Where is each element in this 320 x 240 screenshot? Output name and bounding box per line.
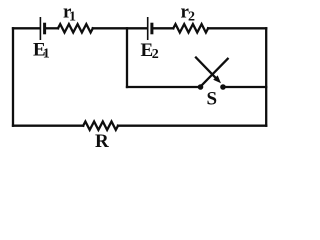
- switch S left contact dot: [198, 84, 204, 90]
- svg-text:E1: E1: [33, 40, 50, 62]
- switch S arrow line: [196, 58, 216, 79]
- svg-text:S: S: [207, 88, 218, 109]
- switch S right contact dot: [220, 84, 226, 90]
- resistor r1: [58, 24, 93, 32]
- node A middle branch vertical wire: [126, 28, 128, 87]
- wire top left segment: [13, 27, 39, 29]
- wire between r1 and node A: [93, 27, 147, 29]
- svg-text:r1: r1: [63, 2, 76, 25]
- wire switch row left: [127, 86, 198, 88]
- wire bottom left segment: [13, 125, 83, 127]
- switch S blade: [201, 59, 228, 87]
- svg-text:R: R: [95, 131, 109, 152]
- wire between E2 and r2: [154, 27, 174, 29]
- wire bottom right segment: [118, 125, 266, 127]
- battery E1: [40, 18, 44, 39]
- resistor r2: [173, 24, 208, 32]
- wire switch row right: [225, 86, 266, 88]
- wire top right segment: [208, 27, 266, 29]
- wire left vertical: [12, 28, 14, 125]
- battery E2: [148, 18, 152, 39]
- svg-text:r2: r2: [181, 2, 195, 25]
- wire right vertical: [265, 28, 267, 125]
- wire between E1 and r1: [46, 27, 58, 29]
- resistor R: [83, 122, 118, 130]
- switch S arrowhead: [213, 75, 221, 83]
- svg-text:E2: E2: [141, 40, 159, 62]
